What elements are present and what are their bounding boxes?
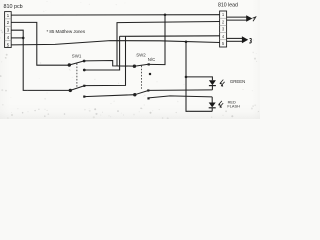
switch SW2 upper pole unused throw contact bbox=[149, 73, 151, 75]
LED D2 emission arrows bbox=[219, 101, 224, 107]
svg-text:810 pcb: 810 pcb bbox=[4, 4, 23, 10]
switch SW2 upper pole N/C throw contact bbox=[148, 63, 150, 65]
wire: SW1 upper throw B riser to J2 pin4 line bbox=[84, 36, 119, 70]
wire: SW1 lower throw A riser to J2 pin4 line bbox=[84, 36, 125, 85]
svg-text:5: 5 bbox=[7, 42, 10, 47]
switch SW1 upper pole common bbox=[68, 63, 71, 66]
wire: SW2 lower throw A to green LED cathode bbox=[149, 89, 213, 92]
switch SW1 lower pole arm bbox=[70, 86, 84, 91]
svg-text:3: 3 bbox=[222, 27, 225, 32]
switch SW1 label bbox=[72, 53, 82, 58]
connector J2 cell separators bbox=[220, 18, 227, 40]
switch SW2 lower pole common bbox=[133, 93, 136, 96]
plug P2 tip bbox=[242, 36, 248, 43]
LED D1 GREEN triangle bbox=[209, 80, 216, 85]
wire: green LED anode rail bbox=[186, 77, 212, 80]
wire: J1 pin4 stub bbox=[11, 37, 23, 39]
connector J1 pin numbers 1-5 bbox=[7, 13, 10, 48]
switch SW1 upper pole throw B contact bbox=[83, 69, 86, 72]
node: junction dot pins 3+4 bbox=[22, 37, 25, 40]
svg-text:3: 3 bbox=[7, 28, 10, 33]
connector J2 pin numbers 1-5 bbox=[222, 12, 225, 46]
connector J1 cell separators bbox=[5, 19, 12, 41]
switch SW2 lower pole arm bbox=[135, 91, 148, 95]
switch SW2 mechanical link (dashed) bbox=[141, 66, 143, 89]
plug P2 wires from J2 pins 4,5 bbox=[227, 37, 243, 39]
svg-text:2: 2 bbox=[7, 20, 10, 25]
connector J1 "810 pcb" label bbox=[4, 4, 23, 10]
wire: joining stub risers on pin4 line bbox=[120, 35, 126, 37]
switch SW2 upper pole arm bbox=[134, 64, 148, 66]
svg-text:FLASH: FLASH bbox=[227, 103, 240, 108]
connector J1 body bbox=[5, 12, 12, 48]
note "* 85 Matthew Jones" bbox=[47, 29, 86, 34]
wire: SW1 lower throw B to SW2 lower common bbox=[84, 95, 134, 97]
wire: SW1 upper throw A to SW2 upper common bbox=[84, 61, 134, 67]
switch SW2 lower pole throw B contact bbox=[147, 97, 149, 99]
LED D2 cathode bar bbox=[209, 107, 216, 109]
LED D1 cathode bar bbox=[209, 85, 216, 87]
svg-text:1: 1 bbox=[7, 13, 10, 18]
switch SW1 lower pole throw A contact bbox=[83, 85, 85, 87]
svg-text:N/C: N/C bbox=[148, 57, 155, 62]
plug P2 mark bbox=[249, 38, 251, 43]
wire: J1 pin1 to J2 pin1 (top rail) bbox=[11, 14, 219, 16]
label GREEN bbox=[230, 79, 245, 84]
node: junction dot on pin5 rail above LEDs bbox=[185, 41, 188, 44]
svg-text:4: 4 bbox=[7, 35, 10, 40]
paper speckle noise bbox=[0, 1, 259, 119]
plug P1 tip bbox=[246, 15, 252, 21]
LED D2 RED triangle bbox=[209, 103, 216, 108]
switch SW1 upper pole arm bbox=[69, 61, 84, 65]
svg-text:SW1: SW1 bbox=[72, 53, 82, 58]
wire: J2 pin2 line down to SW2 upper common bbox=[117, 22, 220, 66]
switch SW2 upper pole common bbox=[133, 65, 136, 68]
label RED FLASH bbox=[227, 99, 240, 108]
LED D1 emission arrows bbox=[220, 80, 225, 86]
node: junction dot green LED anode branch bbox=[185, 76, 188, 79]
wire: red LED anode stub bbox=[211, 97, 213, 103]
switch SW1 lower pole common bbox=[69, 89, 72, 92]
switch SW2 label bbox=[136, 52, 146, 57]
label N/C bbox=[148, 57, 155, 62]
svg-text:SW2: SW2 bbox=[136, 52, 146, 57]
wire: green LED cathode stub bbox=[211, 86, 213, 90]
node: junction dot on top rail feeding SW2 N/C bbox=[164, 14, 167, 17]
wire: J2 pin4 line bbox=[126, 35, 220, 38]
wire: drop from top rail to SW2 N/C throw bbox=[149, 15, 165, 65]
svg-text:5: 5 bbox=[222, 41, 225, 46]
svg-text:* 85 Matthew Jones: * 85 Matthew Jones bbox=[47, 29, 86, 34]
plug P1 wires from J2 pins 1,2 bbox=[227, 16, 247, 18]
wire: J1 pin5 long rail to J2 pin5 bbox=[11, 41, 219, 45]
switch SW1 upper pole throw A contact bbox=[83, 60, 86, 63]
wire: LED feed vertical from pin5 rail bbox=[186, 42, 212, 112]
switch SW2 lower pole throw A contact bbox=[147, 89, 149, 91]
switch SW1 lower pole throw B contact bbox=[83, 96, 85, 98]
wire: J1 pin2 to SW1 upper common bbox=[11, 22, 68, 65]
wire: J1 pin3 down to pin4 junction bbox=[11, 30, 23, 38]
plug P1 mark bbox=[253, 16, 257, 21]
svg-text:1: 1 bbox=[222, 12, 225, 17]
wire: SW2 lower throw B to red LED anode bbox=[149, 96, 213, 98]
wire: red LED cathode stub bbox=[211, 108, 213, 112]
connector J2 body bbox=[220, 11, 227, 47]
wire: junction down and right to SW1 lower common bbox=[23, 38, 69, 91]
switch SW1 mechanical link (dashed) bbox=[76, 63, 78, 87]
svg-text:4: 4 bbox=[222, 34, 225, 39]
svg-text:2: 2 bbox=[222, 19, 225, 24]
svg-text:810 lead: 810 lead bbox=[218, 3, 238, 9]
connector J2 "810 lead" label bbox=[218, 3, 238, 9]
svg-text:GREEN: GREEN bbox=[230, 79, 245, 84]
